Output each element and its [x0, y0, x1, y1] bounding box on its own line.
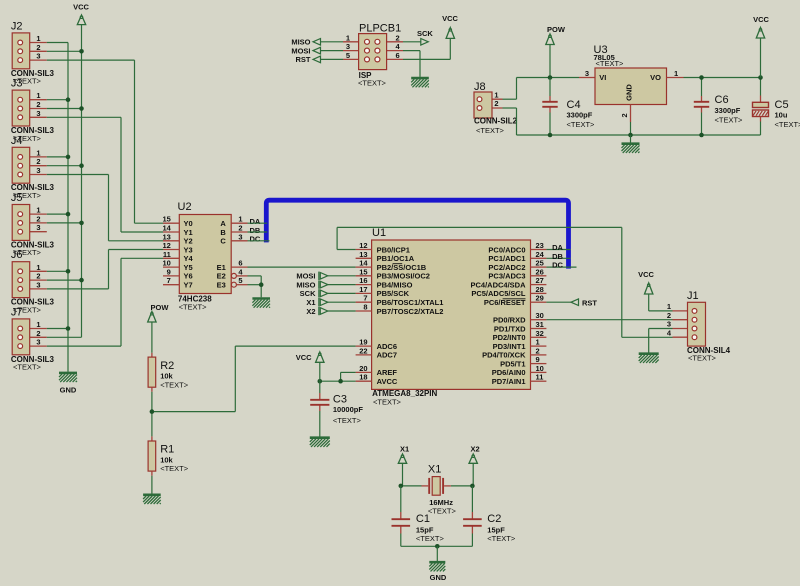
svg-text:MOSI: MOSI	[291, 46, 310, 55]
svg-text:<TEXT>: <TEXT>	[715, 115, 744, 124]
svg-text:C4: C4	[567, 99, 581, 111]
svg-text:9: 9	[536, 355, 540, 364]
svg-text:U1: U1	[372, 227, 386, 239]
svg-text:1: 1	[536, 338, 540, 347]
svg-text:J2: J2	[11, 20, 23, 32]
svg-text:C3: C3	[333, 393, 347, 405]
svg-text:3: 3	[238, 232, 242, 241]
svg-text:<TEXT>: <TEXT>	[476, 126, 505, 135]
svg-text:14: 14	[359, 259, 368, 268]
svg-text:PD3/INT1: PD3/INT1	[493, 342, 526, 351]
svg-text:MISO: MISO	[296, 280, 315, 289]
svg-text:Y6: Y6	[184, 272, 193, 281]
svg-text:J3: J3	[11, 78, 23, 90]
svg-text:3: 3	[36, 280, 40, 289]
svg-text:PB2/SS/OC1B: PB2/SS/OC1B	[377, 263, 427, 272]
svg-text:<TEXT>: <TEXT>	[179, 302, 208, 311]
svg-text:15: 15	[162, 215, 170, 224]
svg-text:PD5/T1: PD5/T1	[500, 359, 525, 368]
svg-text:1: 1	[494, 90, 498, 99]
svg-text:PB4/MISO: PB4/MISO	[377, 280, 413, 289]
svg-text:2: 2	[36, 272, 40, 281]
svg-text:2: 2	[494, 99, 498, 108]
svg-text:PB0/ICP1: PB0/ICP1	[377, 245, 410, 254]
svg-text:C2: C2	[487, 513, 501, 525]
svg-text:3: 3	[36, 223, 40, 232]
svg-text:5: 5	[346, 51, 350, 60]
svg-text:23: 23	[536, 241, 544, 250]
svg-text:PD7/AIN1: PD7/AIN1	[492, 377, 526, 386]
svg-text:C: C	[220, 237, 226, 246]
svg-text:J8: J8	[474, 81, 486, 93]
svg-text:C5: C5	[775, 99, 789, 111]
svg-text:30: 30	[536, 311, 544, 320]
svg-text:E2: E2	[217, 272, 226, 281]
svg-text:6: 6	[396, 51, 400, 60]
svg-text:SCK: SCK	[300, 289, 316, 298]
svg-text:1: 1	[36, 263, 40, 272]
svg-text:PD6/AIN0: PD6/AIN0	[492, 368, 526, 377]
svg-text:<TEXT>: <TEXT>	[428, 507, 457, 516]
svg-text:POW: POW	[547, 25, 566, 34]
svg-text:18: 18	[359, 373, 367, 382]
svg-text:5: 5	[238, 276, 242, 285]
svg-text:R2: R2	[160, 360, 174, 372]
svg-text:15: 15	[359, 267, 367, 276]
svg-text:PB3/MOSI/OC2: PB3/MOSI/OC2	[377, 272, 430, 281]
svg-text:DA: DA	[250, 217, 261, 226]
svg-text:SCK: SCK	[417, 29, 433, 38]
svg-text:3: 3	[36, 166, 40, 175]
svg-text:<TEXT>: <TEXT>	[373, 397, 402, 406]
svg-text:2: 2	[238, 224, 242, 233]
svg-text:10u: 10u	[775, 110, 788, 119]
svg-text:VCC: VCC	[73, 3, 89, 12]
svg-text:2: 2	[36, 329, 40, 338]
svg-text:DB: DB	[250, 226, 261, 235]
svg-text:AVCC: AVCC	[377, 377, 398, 386]
svg-text:E1: E1	[217, 263, 226, 272]
svg-text:POW: POW	[151, 303, 170, 312]
svg-text:GND: GND	[625, 84, 634, 101]
svg-text:VCC: VCC	[442, 14, 458, 23]
svg-text:Y5: Y5	[184, 263, 193, 272]
svg-text:VCC: VCC	[753, 15, 769, 24]
svg-text:1: 1	[667, 302, 671, 311]
svg-text:VO: VO	[650, 73, 661, 82]
svg-text:J4: J4	[11, 135, 23, 147]
svg-text:<TEXT>: <TEXT>	[775, 120, 800, 129]
svg-text:8: 8	[363, 303, 367, 312]
svg-text:<TEXT>: <TEXT>	[567, 120, 596, 129]
svg-text:PC4/ADC4/SDA: PC4/ADC4/SDA	[470, 280, 526, 289]
svg-text:DC: DC	[552, 261, 563, 270]
svg-text:2: 2	[667, 311, 671, 320]
svg-text:10: 10	[162, 259, 170, 268]
svg-text:10k: 10k	[160, 455, 173, 464]
svg-text:31: 31	[536, 320, 544, 329]
svg-text:<TEXT>: <TEXT>	[688, 353, 717, 362]
svg-text:1: 1	[36, 320, 40, 329]
svg-text:VI: VI	[599, 73, 606, 82]
svg-text:B: B	[220, 228, 226, 237]
svg-text:3300pF: 3300pF	[567, 111, 593, 120]
svg-text:Y3: Y3	[184, 245, 193, 254]
svg-text:3: 3	[36, 338, 40, 347]
svg-text:PC3/ADC3: PC3/ADC3	[488, 272, 525, 281]
svg-text:3: 3	[36, 109, 40, 118]
svg-text:25: 25	[536, 259, 544, 268]
svg-text:12: 12	[359, 241, 367, 250]
svg-text:3: 3	[36, 52, 40, 61]
svg-text:1: 1	[36, 34, 40, 43]
svg-text:ADC7: ADC7	[377, 351, 397, 360]
svg-text:26: 26	[536, 267, 544, 276]
svg-text:2: 2	[620, 113, 629, 117]
svg-text:10000pF: 10000pF	[333, 405, 363, 414]
svg-text:J5: J5	[11, 192, 23, 204]
svg-text:3: 3	[667, 320, 671, 329]
svg-text:3: 3	[585, 69, 589, 78]
svg-text:10: 10	[536, 364, 544, 373]
svg-text:U2: U2	[178, 201, 192, 213]
svg-text:28: 28	[536, 285, 544, 294]
svg-text:DB: DB	[552, 252, 563, 261]
svg-text:9: 9	[167, 267, 171, 276]
svg-text:C6: C6	[715, 94, 729, 106]
svg-text:<TEXT>: <TEXT>	[487, 534, 516, 543]
svg-text:X1: X1	[306, 298, 315, 307]
svg-text:17: 17	[359, 285, 367, 294]
svg-text:24: 24	[536, 250, 545, 259]
svg-text:19: 19	[359, 338, 367, 347]
svg-text:2: 2	[536, 346, 540, 355]
svg-text:DA: DA	[552, 243, 563, 252]
svg-text:PB1/OC1A: PB1/OC1A	[377, 254, 415, 263]
svg-text:1: 1	[36, 91, 40, 100]
svg-text:16: 16	[359, 276, 367, 285]
svg-text:<TEXT>: <TEXT>	[160, 464, 189, 473]
svg-text:PD2/INT0: PD2/INT0	[493, 333, 526, 342]
svg-text:1: 1	[36, 206, 40, 215]
svg-text:J7: J7	[11, 306, 23, 318]
svg-text:PB7/TOSC2/XTAL2: PB7/TOSC2/XTAL2	[377, 307, 444, 316]
svg-text:ADC6: ADC6	[377, 342, 397, 351]
svg-text:Y1: Y1	[184, 228, 193, 237]
svg-text:2: 2	[36, 43, 40, 52]
svg-text:PB6/TOSC1/XTAL1: PB6/TOSC1/XTAL1	[377, 298, 444, 307]
svg-text:DC: DC	[250, 235, 261, 244]
svg-text:PD1/TXD: PD1/TXD	[494, 324, 526, 333]
svg-text:3: 3	[346, 42, 350, 51]
svg-text:27: 27	[536, 276, 544, 285]
svg-text:<TEXT>: <TEXT>	[416, 534, 445, 543]
svg-text:CONN-SIL2: CONN-SIL2	[474, 116, 518, 125]
svg-text:A: A	[220, 219, 226, 228]
svg-text:J6: J6	[11, 249, 23, 261]
svg-text:Y4: Y4	[184, 254, 194, 263]
svg-text:PB5/SCK: PB5/SCK	[377, 289, 410, 298]
svg-text:1: 1	[346, 33, 350, 42]
svg-text:1: 1	[674, 69, 678, 78]
svg-text:3300pF: 3300pF	[715, 106, 741, 115]
svg-text:7: 7	[363, 294, 367, 303]
svg-text:PC5/ADC5/SCL: PC5/ADC5/SCL	[471, 289, 526, 298]
svg-text:R1: R1	[160, 444, 174, 456]
svg-text:2: 2	[36, 100, 40, 109]
svg-text:PC1/ADC1: PC1/ADC1	[488, 254, 525, 263]
svg-text:VCC: VCC	[296, 353, 312, 362]
svg-text:32: 32	[536, 329, 544, 338]
svg-text:10k: 10k	[160, 372, 173, 381]
svg-text:11: 11	[536, 373, 544, 382]
svg-text:Y2: Y2	[184, 237, 193, 246]
svg-text:<TEXT>: <TEXT>	[358, 79, 387, 88]
svg-text:1: 1	[238, 215, 242, 224]
svg-text:PD0/RXD: PD0/RXD	[493, 316, 526, 325]
svg-text:7: 7	[167, 276, 171, 285]
svg-text:PC0/ADC0: PC0/ADC0	[488, 245, 525, 254]
svg-text:E3: E3	[217, 281, 226, 290]
svg-text:J1: J1	[687, 290, 699, 302]
svg-text:13: 13	[359, 250, 367, 259]
svg-text:MOSI: MOSI	[296, 272, 315, 281]
svg-text:13: 13	[162, 232, 170, 241]
svg-text:GND: GND	[60, 386, 77, 395]
svg-text:Y0: Y0	[184, 219, 193, 228]
svg-text:GND: GND	[430, 573, 447, 582]
svg-text:PD4/T0/XCK: PD4/T0/XCK	[482, 351, 526, 360]
svg-text:AREF: AREF	[377, 368, 398, 377]
svg-text:X1: X1	[400, 445, 409, 454]
svg-text:Y7: Y7	[184, 281, 193, 290]
svg-text:<TEXT>: <TEXT>	[333, 416, 362, 425]
svg-text:20: 20	[359, 364, 367, 373]
svg-text:RST: RST	[296, 55, 311, 64]
svg-text:<TEXT>: <TEXT>	[596, 59, 625, 68]
svg-text:11: 11	[163, 250, 171, 259]
svg-text:X2: X2	[306, 307, 315, 316]
svg-text:2: 2	[396, 33, 400, 42]
svg-text:RST: RST	[582, 298, 597, 307]
svg-text:X1: X1	[428, 464, 441, 476]
svg-text:PC6/RESET: PC6/RESET	[484, 298, 526, 307]
svg-text:12: 12	[162, 241, 170, 250]
svg-text:14: 14	[162, 224, 171, 233]
svg-text:MISO: MISO	[291, 38, 310, 47]
svg-text:<TEXT>: <TEXT>	[160, 380, 189, 389]
svg-text:2: 2	[36, 214, 40, 223]
svg-text:X2: X2	[471, 445, 480, 454]
svg-text:<TEXT>: <TEXT>	[13, 363, 42, 372]
svg-text:22: 22	[359, 346, 367, 355]
svg-text:6: 6	[238, 259, 242, 268]
svg-text:C1: C1	[416, 513, 430, 525]
svg-text:PC2/ADC2: PC2/ADC2	[488, 263, 525, 272]
svg-text:1: 1	[36, 148, 40, 157]
svg-text:2: 2	[36, 157, 40, 166]
svg-text:VCC: VCC	[638, 270, 654, 279]
svg-text:29: 29	[536, 294, 544, 303]
